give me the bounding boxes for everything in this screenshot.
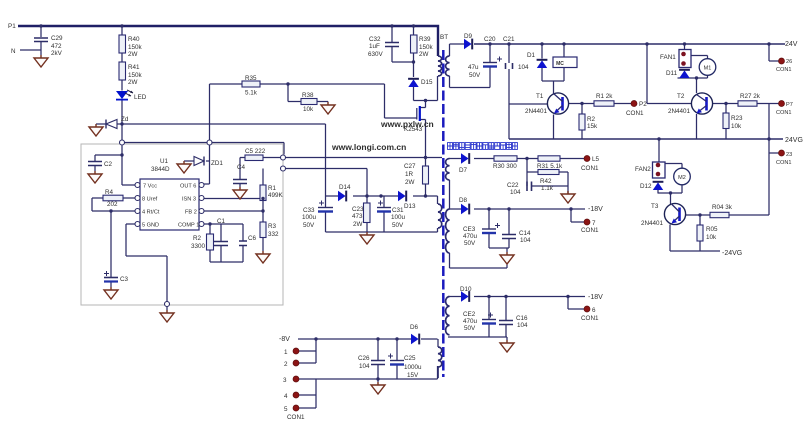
svg-text:D10: D10 [460, 286, 472, 293]
svg-text:R3: R3 [268, 223, 277, 230]
svg-text:26: 26 [786, 59, 792, 65]
svg-text:R42: R42 [540, 178, 552, 185]
svg-text:R1 2k: R1 2k [596, 93, 613, 100]
svg-text:CON1: CON1 [776, 67, 792, 73]
svg-text:P7: P7 [786, 102, 793, 108]
svg-text:4 Rt/Ct: 4 Rt/Ct [142, 210, 160, 216]
svg-text:D1: D1 [527, 52, 536, 59]
svg-text:5 GND: 5 GND [142, 223, 159, 229]
svg-text:2W: 2W [353, 221, 363, 228]
svg-text:FB 2: FB 2 [185, 210, 197, 216]
svg-text:104: 104 [517, 322, 528, 329]
svg-text:C6: C6 [248, 235, 257, 242]
svg-text:D9: D9 [464, 33, 473, 40]
svg-text:R35: R35 [245, 75, 257, 82]
svg-text:D12: D12 [640, 183, 652, 190]
svg-text:R1: R1 [268, 185, 277, 192]
svg-text:2W: 2W [128, 79, 138, 86]
svg-text:www.pxlw.cn: www.pxlw.cn [380, 119, 434, 129]
svg-text:R05: R05 [706, 226, 718, 233]
svg-text:R2: R2 [587, 116, 596, 123]
svg-text:M2: M2 [678, 175, 686, 181]
svg-text:C25: C25 [404, 355, 416, 362]
svg-text:24VG: 24VG [785, 137, 803, 144]
svg-text:-18V: -18V [588, 294, 603, 301]
svg-text:D15: D15 [421, 79, 433, 86]
svg-text:C22: C22 [507, 182, 519, 189]
svg-text:202: 202 [107, 201, 118, 208]
svg-text:150k: 150k [128, 72, 143, 79]
svg-text:CON1: CON1 [287, 414, 305, 421]
svg-text:C20: C20 [484, 36, 496, 43]
svg-text:104: 104 [518, 64, 529, 71]
svg-text:CON1: CON1 [776, 160, 792, 166]
svg-text:C5 222: C5 222 [245, 148, 266, 155]
svg-text:-8V: -8V [279, 336, 290, 343]
svg-text:FAN1: FAN1 [660, 54, 676, 61]
svg-text:2W: 2W [419, 51, 429, 58]
svg-text:L5: L5 [592, 156, 600, 163]
svg-text:D6: D6 [410, 324, 419, 331]
svg-text:50V: 50V [464, 240, 476, 247]
svg-text:COMP 1: COMP 1 [178, 223, 199, 229]
svg-text:C26: C26 [358, 355, 370, 362]
svg-text:5: 5 [284, 406, 288, 413]
svg-text:R4: R4 [105, 189, 114, 196]
svg-text:D11: D11 [666, 70, 678, 77]
svg-text:CE3: CE3 [463, 226, 476, 233]
svg-text:7: 7 [592, 220, 596, 227]
svg-text:499K: 499K [268, 192, 284, 199]
svg-text:100u: 100u [302, 214, 317, 221]
svg-text:CON1: CON1 [581, 227, 599, 234]
svg-text:R40: R40 [128, 36, 140, 43]
svg-text:2kV: 2kV [51, 50, 63, 57]
svg-text:C3: C3 [120, 276, 129, 283]
svg-text:R38: R38 [302, 92, 314, 99]
svg-text:3300: 3300 [191, 243, 206, 250]
svg-text:C29: C29 [51, 35, 63, 42]
svg-text:D13: D13 [404, 203, 416, 210]
svg-text:1.1k: 1.1k [541, 185, 554, 192]
svg-text:150k: 150k [128, 44, 143, 51]
svg-text:D8: D8 [459, 197, 468, 204]
svg-text:6: 6 [592, 307, 596, 314]
svg-text:3844D: 3844D [151, 166, 170, 173]
svg-text:M1: M1 [704, 66, 712, 72]
svg-text:15k: 15k [587, 123, 598, 130]
svg-text:473: 473 [352, 213, 363, 220]
svg-text:332: 332 [268, 231, 279, 238]
svg-text:D14: D14 [339, 184, 351, 191]
svg-text:T1: T1 [536, 93, 544, 100]
svg-text:R31 5.1k: R31 5.1k [537, 163, 563, 170]
svg-text:1uF: 1uF [369, 43, 380, 50]
svg-text:CON1: CON1 [776, 110, 792, 116]
svg-text:C4: C4 [237, 164, 246, 171]
svg-text:C2: C2 [104, 161, 113, 168]
svg-text:T2: T2 [677, 93, 685, 100]
svg-text:P2: P2 [639, 101, 647, 108]
svg-text:4: 4 [284, 393, 288, 400]
svg-text:C33: C33 [303, 207, 315, 214]
svg-text:C23: C23 [352, 206, 364, 213]
svg-text:2W: 2W [128, 51, 138, 58]
svg-text:R04 3k: R04 3k [712, 204, 733, 211]
svg-text:2N4401: 2N4401 [525, 108, 548, 115]
svg-text:R23: R23 [731, 115, 743, 122]
svg-text:CON1: CON1 [581, 165, 599, 172]
svg-text:472: 472 [51, 43, 62, 50]
svg-text:Zd: Zd [121, 116, 129, 123]
svg-text:10k: 10k [303, 106, 314, 113]
svg-text:50V: 50V [303, 222, 315, 229]
svg-text:2: 2 [284, 361, 288, 368]
svg-text:1000u: 1000u [404, 364, 422, 371]
svg-text:104: 104 [520, 237, 531, 244]
svg-text:R39: R39 [419, 36, 431, 43]
svg-text:470u: 470u [463, 318, 478, 325]
svg-text:-24VG: -24VG [722, 250, 742, 257]
svg-text:CON1: CON1 [581, 315, 599, 322]
svg-text:-18V: -18V [588, 206, 603, 213]
svg-text:3: 3 [283, 377, 287, 384]
svg-text:8 Uref: 8 Uref [142, 197, 158, 203]
svg-text:P1: P1 [8, 23, 16, 30]
svg-text:R27 2k: R27 2k [740, 93, 761, 100]
svg-text:104: 104 [510, 189, 521, 196]
svg-text:R2: R2 [193, 235, 202, 242]
svg-text:ISN 3: ISN 3 [182, 197, 196, 203]
svg-text:150k: 150k [419, 44, 434, 51]
svg-text:CON1: CON1 [626, 110, 644, 117]
svg-text:15V: 15V [407, 372, 419, 379]
svg-text:C1: C1 [217, 218, 226, 225]
svg-text:C32: C32 [369, 36, 381, 43]
svg-text:R30 300: R30 300 [493, 163, 517, 170]
svg-text:U1: U1 [160, 158, 169, 165]
svg-text:N: N [11, 48, 16, 55]
svg-text:MC: MC [556, 61, 564, 67]
svg-text:100u: 100u [391, 214, 406, 221]
svg-text:D7: D7 [459, 167, 468, 174]
svg-text:10k: 10k [706, 234, 717, 241]
svg-text:C16: C16 [516, 315, 528, 322]
svg-text:5.1k: 5.1k [245, 90, 258, 97]
svg-text:2N4401: 2N4401 [641, 220, 664, 227]
svg-text:104: 104 [359, 363, 370, 370]
svg-text:2N4401: 2N4401 [668, 108, 691, 115]
svg-text:47u: 47u [468, 64, 479, 71]
svg-text:470u: 470u [463, 233, 478, 240]
svg-text:C27: C27 [404, 163, 416, 170]
svg-text:FAN2: FAN2 [635, 166, 651, 173]
svg-text:50V: 50V [469, 72, 481, 79]
svg-text:23: 23 [786, 152, 792, 158]
svg-text:ZD1: ZD1 [211, 160, 223, 167]
svg-text:C14: C14 [519, 230, 531, 237]
svg-text:C21: C21 [503, 36, 515, 43]
svg-text:R41: R41 [128, 64, 140, 71]
svg-text:7 Vcc: 7 Vcc [143, 184, 157, 190]
svg-text:24V: 24V [785, 41, 798, 48]
svg-text:BT: BT [440, 34, 448, 41]
svg-text:50V: 50V [392, 222, 404, 229]
svg-text:T3: T3 [651, 203, 659, 210]
svg-text:LED: LED [134, 94, 147, 101]
svg-text:CE2: CE2 [463, 311, 476, 318]
svg-text:50V: 50V [464, 325, 476, 332]
svg-text:1R: 1R [405, 171, 414, 178]
svg-text:OUT 6: OUT 6 [180, 184, 196, 190]
svg-text:www.longi.com.cn: www.longi.com.cn [331, 142, 406, 152]
svg-text:10k: 10k [731, 123, 742, 130]
svg-text:1: 1 [284, 349, 288, 356]
svg-text:630V: 630V [368, 51, 384, 58]
svg-text:C31: C31 [392, 207, 404, 214]
svg-text:2W: 2W [405, 179, 415, 186]
